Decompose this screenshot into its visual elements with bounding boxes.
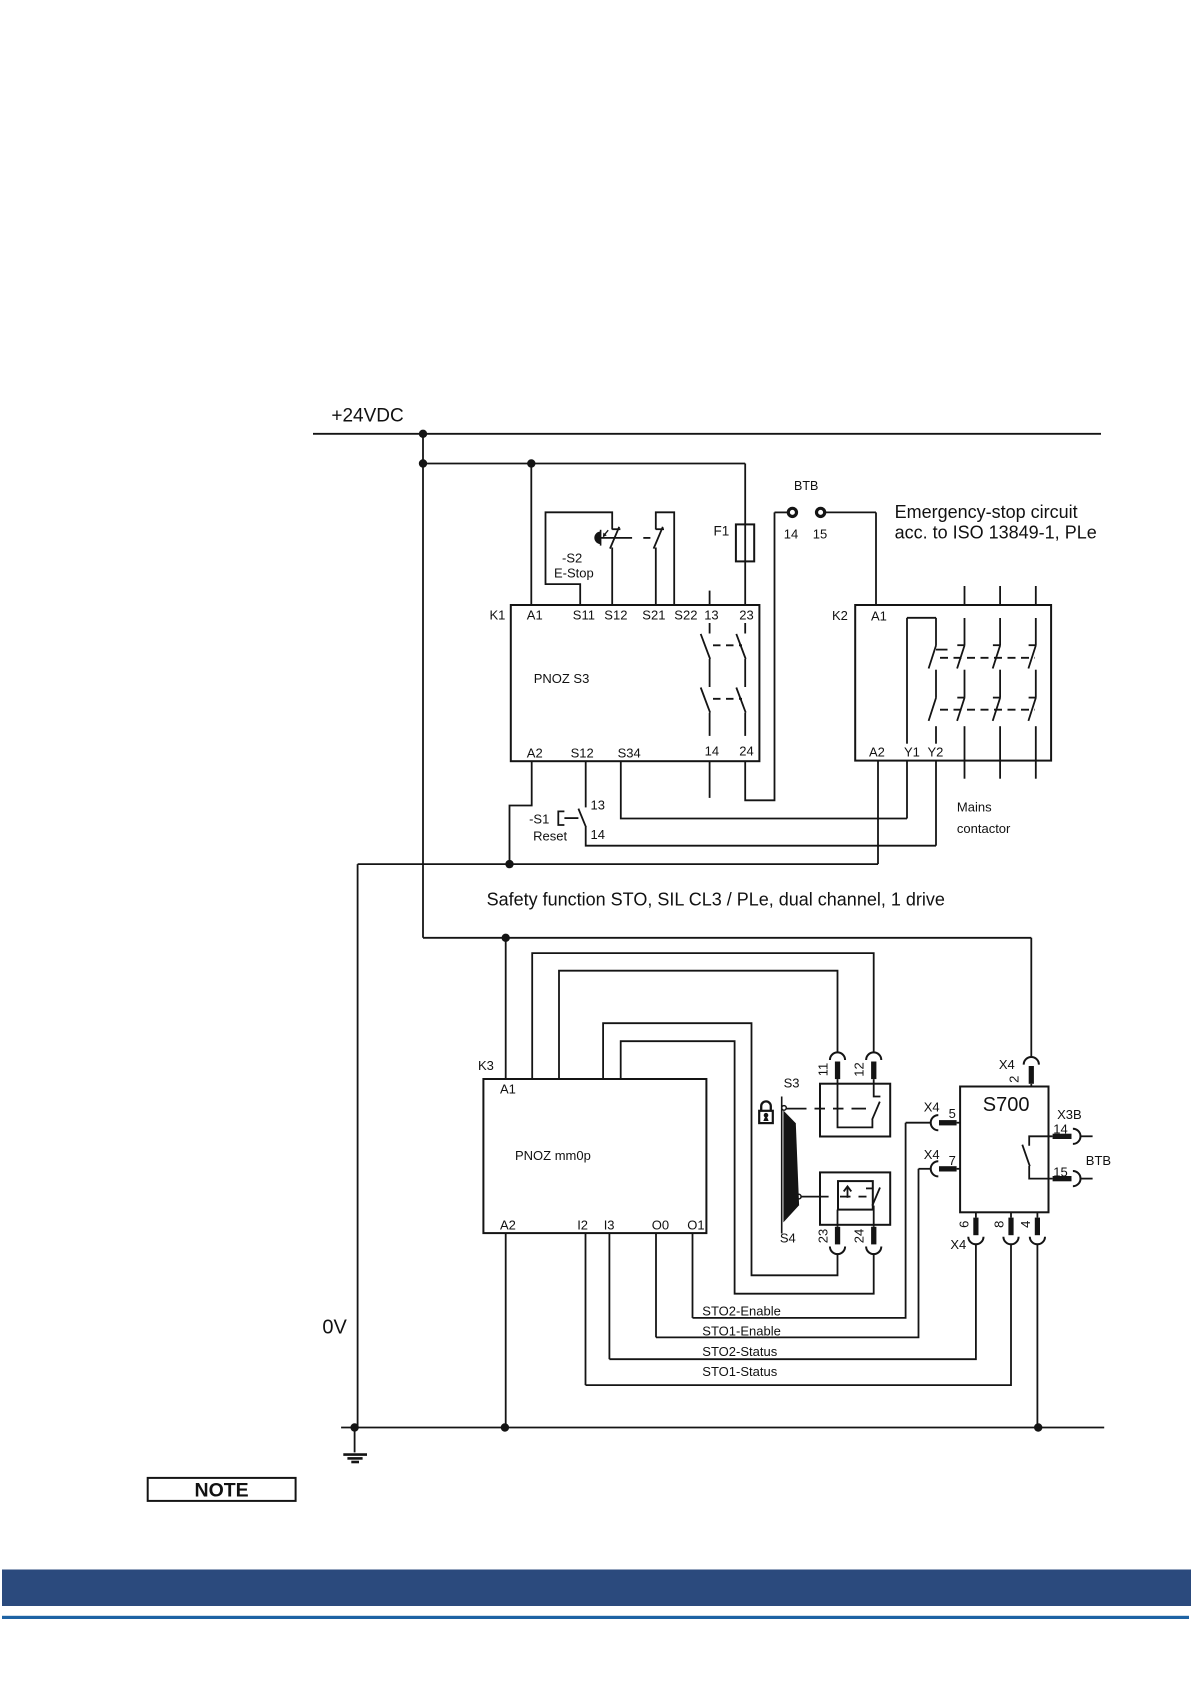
svg-text:X4: X4 <box>999 1057 1015 1072</box>
svg-text:STO2-Status: STO2-Status <box>702 1344 777 1359</box>
svg-text:6: 6 <box>956 1221 971 1228</box>
svg-text:X3B: X3B <box>1057 1107 1082 1122</box>
svg-text:STO1-Status: STO1-Status <box>702 1364 777 1379</box>
svg-text:NOTE: NOTE <box>195 1479 249 1501</box>
svg-text:2: 2 <box>1007 1076 1022 1083</box>
svg-text:11: 11 <box>816 1063 831 1077</box>
svg-text:5: 5 <box>949 1106 956 1121</box>
svg-text:STO2-Enable: STO2-Enable <box>702 1303 781 1318</box>
svg-text:14: 14 <box>705 743 719 758</box>
svg-text:BTB: BTB <box>1086 1153 1111 1168</box>
svg-text:15: 15 <box>1053 1164 1067 1179</box>
svg-text:K3: K3 <box>478 1058 494 1073</box>
svg-text:A2: A2 <box>869 744 885 759</box>
svg-text:Mains: Mains <box>957 799 992 814</box>
svg-text:7: 7 <box>949 1153 956 1168</box>
svg-text:14: 14 <box>784 527 798 542</box>
svg-text:24: 24 <box>852 1229 867 1243</box>
svg-text:S700: S700 <box>983 1094 1030 1116</box>
svg-text:E-Stop: E-Stop <box>554 565 594 580</box>
svg-text:4: 4 <box>1018 1221 1033 1228</box>
svg-text:Safety function STO, SIL CL3 /: Safety function STO, SIL CL3 / PLe, dual… <box>487 889 945 909</box>
svg-text:S22: S22 <box>674 608 697 623</box>
svg-text:BTB: BTB <box>794 479 818 493</box>
svg-text:PNOZ S3: PNOZ S3 <box>534 671 590 686</box>
svg-text:Y2: Y2 <box>928 744 944 759</box>
svg-text:13: 13 <box>704 608 718 623</box>
svg-text:A1: A1 <box>500 1081 516 1096</box>
svg-text:24: 24 <box>739 743 753 758</box>
svg-text:X4: X4 <box>924 1099 940 1114</box>
svg-text:13: 13 <box>591 798 605 813</box>
svg-text:-S1: -S1 <box>529 812 549 827</box>
svg-text:K1: K1 <box>490 608 506 623</box>
svg-text:S11: S11 <box>573 608 595 623</box>
svg-text:23: 23 <box>739 608 753 623</box>
svg-text:O1: O1 <box>687 1218 704 1233</box>
svg-text:14: 14 <box>1053 1122 1067 1137</box>
svg-text:I3: I3 <box>604 1218 615 1233</box>
svg-text:K2: K2 <box>832 608 848 623</box>
svg-text:12: 12 <box>852 1062 867 1076</box>
svg-text:S12: S12 <box>604 608 627 623</box>
svg-text:S34: S34 <box>618 746 641 761</box>
svg-text:A2: A2 <box>500 1218 516 1233</box>
svg-text:F1: F1 <box>714 524 730 539</box>
svg-text:Reset: Reset <box>533 829 567 844</box>
svg-text:S21: S21 <box>642 608 665 623</box>
svg-text:acc. to ISO 13849-1, PLe: acc. to ISO 13849-1, PLe <box>895 523 1097 543</box>
svg-text:S3: S3 <box>784 1076 800 1091</box>
svg-text:I2: I2 <box>577 1218 588 1233</box>
svg-text:A1: A1 <box>871 609 887 624</box>
svg-text:14: 14 <box>591 827 605 842</box>
svg-text:X4: X4 <box>950 1237 966 1252</box>
svg-text:-S2: -S2 <box>562 550 582 565</box>
svg-text:15: 15 <box>813 527 827 542</box>
svg-text:0V: 0V <box>322 1317 347 1339</box>
svg-text:Emergency-stop circuit: Emergency-stop circuit <box>895 502 1078 522</box>
svg-text:X4: X4 <box>924 1147 940 1162</box>
svg-text:O0: O0 <box>652 1218 669 1233</box>
svg-text:8: 8 <box>991 1221 1006 1228</box>
svg-text:23: 23 <box>816 1229 831 1243</box>
svg-text:S4: S4 <box>780 1230 796 1245</box>
svg-text:contactor: contactor <box>957 821 1011 836</box>
svg-text:PNOZ mm0p: PNOZ mm0p <box>515 1148 591 1163</box>
svg-text:S12: S12 <box>571 746 594 761</box>
svg-text:A2: A2 <box>527 746 543 761</box>
svg-text:STO1-Enable: STO1-Enable <box>702 1324 781 1339</box>
svg-text:A1: A1 <box>527 608 543 623</box>
svg-text:Y1: Y1 <box>904 744 920 759</box>
svg-text:+24VDC: +24VDC <box>331 406 403 427</box>
